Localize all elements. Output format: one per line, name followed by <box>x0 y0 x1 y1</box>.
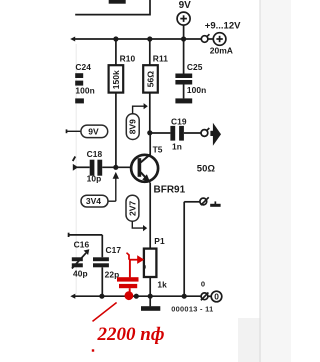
svg-text:000013 - 11: 000013 - 11 <box>171 305 213 314</box>
svg-text:C19: C19 <box>171 116 187 126</box>
svg-text:C18: C18 <box>87 149 103 159</box>
cut wire arrow left end of bottom bus <box>70 294 75 299</box>
red annotation: capacitor 2200pF plate 1 <box>117 277 139 281</box>
junction battery/bus <box>181 36 186 41</box>
trimmer C16 plate 1 <box>72 257 83 261</box>
svg-text:P1: P1 <box>154 236 165 246</box>
lead 8V9 <box>133 106 144 114</box>
svg-text:R11: R11 <box>153 53 168 63</box>
svg-text:100n: 100n <box>187 85 207 95</box>
wire ground rail riser <box>183 202 185 297</box>
ground bar under P1 <box>141 306 160 311</box>
top supply bus wire <box>74 38 202 40</box>
wire C18 to transistor base <box>102 166 138 168</box>
junction old wiper/bus <box>134 294 139 299</box>
test point pill 8V9 <box>126 114 139 140</box>
svg-text:2V7: 2V7 <box>127 201 137 216</box>
svg-text:1k: 1k <box>157 280 167 290</box>
red annotation: wire cap to bus <box>129 288 131 293</box>
resistor R11 <box>143 65 158 92</box>
svg-text:40p: 40p <box>73 268 88 278</box>
capacitor C17 plate 1 <box>93 257 109 261</box>
emitter diagonal <box>141 172 150 182</box>
capacitor C19 plate 1 <box>170 126 175 141</box>
terminal 0 circle <box>211 291 222 302</box>
junction R10/bus <box>113 36 118 41</box>
cut tick at 9V lead end <box>66 129 68 133</box>
emitter wire to P1 <box>149 183 151 249</box>
wire bus to R11 <box>149 39 151 65</box>
ground bar under C25 <box>175 98 192 103</box>
transistor T5 circle <box>131 155 158 182</box>
test point arrow 8V9 <box>144 103 148 109</box>
supply connector pin <box>201 34 213 42</box>
wire battery to bus <box>183 25 185 39</box>
svg-text:150k: 150k <box>111 70 121 89</box>
potentiometer P1 <box>144 249 157 277</box>
svg-text:3V4: 3V4 <box>86 196 101 206</box>
svg-text:9V: 9V <box>179 0 192 11</box>
faint crop artifact line <box>76 44 77 294</box>
wire P1 to bottom bus <box>149 277 151 296</box>
zero connector pin <box>201 293 211 301</box>
junction C17/bus <box>99 294 104 299</box>
lead 3V4 horizontal <box>108 200 116 202</box>
image border line right <box>259 0 260 362</box>
coax output arrow symbol <box>210 131 213 136</box>
svg-text:T5: T5 <box>153 144 163 154</box>
test point arrow 3V4 <box>113 172 119 179</box>
svg-text:0: 0 <box>201 279 205 288</box>
wiper notch remnant <box>143 265 145 268</box>
junction R11/bus <box>147 36 152 41</box>
tank node wire horizontal <box>69 234 103 236</box>
capacitor C25 plate 1 <box>175 74 192 79</box>
cut wire arrow left end of bus <box>70 37 75 42</box>
red annotation: wire wiper to cap <box>129 260 131 278</box>
svg-text:1n: 1n <box>172 141 182 151</box>
junction base node <box>113 165 118 170</box>
svg-text:C16: C16 <box>74 239 90 249</box>
svg-text:+9...12V: +9...12V <box>205 21 241 32</box>
wire collector to C19 <box>150 132 171 134</box>
capacitor C19 plate 2 <box>179 126 184 141</box>
test point lead 9V <box>66 130 81 132</box>
ground stub under P1 <box>149 296 151 306</box>
svg-text:100n: 100n <box>75 85 95 95</box>
resistor R10 <box>109 65 124 92</box>
capacitor C24 plate 2 <box>75 81 83 86</box>
supply terminal (+) circle <box>213 33 226 46</box>
wire into C18 <box>77 166 90 168</box>
grey page strip right <box>261 0 292 362</box>
wire C25 to ground <box>183 85 185 99</box>
lead 2V7 <box>132 221 143 228</box>
transistor base bar <box>138 158 142 177</box>
test point pill 2V7 <box>126 195 139 221</box>
capacitor C17 plate 2 <box>93 263 109 267</box>
svg-text:50Ω: 50Ω <box>197 164 216 175</box>
svg-text:R10: R10 <box>120 53 136 63</box>
red annotation: stray dot <box>92 349 94 351</box>
red annotation: wiper arrow redrawn <box>127 253 138 260</box>
capacitor C18 plate 1 <box>90 160 95 176</box>
capacitor C25 plate 2 <box>175 80 192 85</box>
battery terminal B1 (+) <box>177 12 190 25</box>
capacitor C18 plate 2 <box>97 160 102 176</box>
shield connector pin <box>200 197 209 205</box>
wire bus to R10 <box>115 39 117 65</box>
svg-text:56Ω: 56Ω <box>146 71 156 87</box>
svg-text:9V: 9V <box>88 126 99 136</box>
wire C17 to bottom bus <box>101 267 103 296</box>
svg-text:C25: C25 <box>187 62 203 72</box>
ground symbol at shield <box>215 201 217 204</box>
svg-text:C17: C17 <box>106 245 122 255</box>
wire R10 to base node <box>115 93 117 168</box>
svg-text:2200 пф: 2200 пф <box>97 324 165 345</box>
red annotation: capacitor 2200pF plate 2 <box>119 284 137 288</box>
ground bar under C24 <box>75 98 84 103</box>
svg-text:0: 0 <box>214 292 219 302</box>
test point pill 3V4 <box>81 195 108 207</box>
cut remnant tick near C18 <box>73 157 76 162</box>
output connector pin <box>201 128 209 136</box>
red annotation: junction dot on bus <box>124 291 133 300</box>
test point arrow 2V7 <box>143 225 147 231</box>
cut wire arrow into C18 <box>73 164 78 171</box>
junction riser/bus <box>182 294 187 299</box>
bottom ground bus wire <box>74 295 202 297</box>
junction collector node <box>147 130 152 135</box>
svg-text:10p: 10p <box>87 173 102 183</box>
trimmer C16 arrow <box>72 253 86 269</box>
test point pill 9V <box>81 125 108 138</box>
svg-text:20mA: 20mA <box>210 45 233 55</box>
cut-off capacitor plate inside top box <box>109 0 126 4</box>
cut-off component box at top <box>75 0 150 15</box>
cut tick left end of tank node <box>68 233 70 237</box>
tank node wire down to C17 <box>101 235 103 257</box>
wire R11 to collector node <box>149 93 151 133</box>
wire riser to shield pin <box>184 201 200 203</box>
red annotation: leader line <box>93 303 117 322</box>
grey page corner bottom-right <box>238 318 261 362</box>
capacitor C24 plate 1 <box>75 73 83 78</box>
collector diagonal <box>141 154 151 162</box>
wire C19 to output pin <box>184 132 202 134</box>
trimmer C16 plate 2 <box>72 263 83 267</box>
svg-text:C24: C24 <box>75 62 91 72</box>
emitter arrow <box>142 174 150 182</box>
junction P1/bus <box>148 294 153 299</box>
svg-text:8V9: 8V9 <box>128 119 138 134</box>
lead 3V4 vertical <box>115 178 117 202</box>
collector wire <box>149 133 151 155</box>
wire bus to C25 <box>183 39 185 74</box>
svg-text:BFR91: BFR91 <box>154 184 186 195</box>
